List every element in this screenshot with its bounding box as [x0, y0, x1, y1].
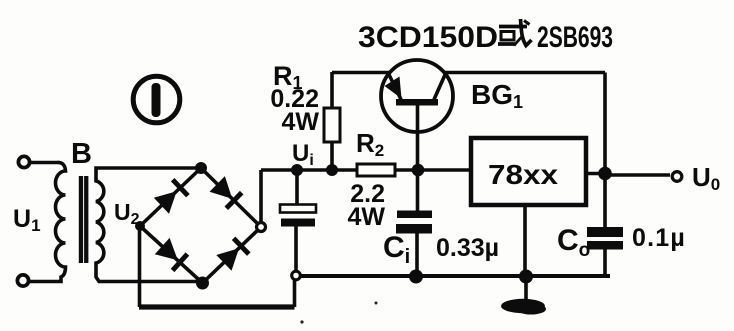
svg-text:3CD150D: 3CD150D: [358, 21, 498, 54]
node Ci bottom: [409, 270, 423, 284]
svg-text:U0: U0: [692, 162, 720, 194]
svg-text:0.1µ: 0.1µ: [632, 224, 686, 252]
top wire right of transistor: [445, 71, 605, 75]
svg-text:78xx: 78xx: [488, 159, 558, 190]
wire riser from bridge right vertex to Ui rail: [259, 170, 263, 222]
node base junction: [412, 164, 425, 177]
input terminal top: [18, 156, 29, 167]
svg-text:BG1: BG1: [471, 79, 523, 112]
diode D2 top-right: [210, 176, 242, 208]
resistor R2: [357, 164, 395, 176]
svg-text:R2: R2: [356, 128, 384, 160]
main rail Ui: [261, 168, 471, 172]
input terminal bottom: [17, 275, 28, 286]
bridge node bottom: [196, 277, 209, 290]
capacitor Co lead bottom: [603, 249, 607, 276]
svg-text:B: B: [71, 138, 92, 170]
transformer secondary winding: [96, 168, 202, 282]
diode D3 bottom-left: [155, 238, 188, 271]
wire riser lower rail to bottom rail ring: [293, 280, 297, 307]
capacitor Ci plates: [396, 211, 432, 234]
node R1 bottom: [326, 164, 338, 176]
bridge right vertex ring: [257, 223, 266, 232]
resistor R1: [324, 72, 340, 170]
junction ring: [292, 271, 301, 280]
filter capacitor plates: [280, 205, 316, 227]
diode D4 bottom-right: [216, 238, 249, 270]
bottom positive rail: [300, 274, 610, 278]
bridge node top: [195, 162, 207, 174]
capacitor Ci lead bottom: [415, 232, 419, 277]
ground stem: [524, 276, 528, 302]
figure mark (1): [133, 76, 180, 123]
wire drop from bridge left vertex to lower rail: [138, 226, 142, 307]
transistor BG1: [381, 60, 453, 211]
svg-text:Ui: Ui: [292, 140, 314, 169]
diode D1 top-left: [154, 180, 188, 214]
transformer primary winding: [29, 162, 66, 281]
svg-text:4W: 4W: [282, 108, 320, 136]
ground symbol: [501, 299, 546, 315]
svg-text:4W: 4W: [348, 203, 386, 231]
svg-text:U1: U1: [13, 205, 41, 235]
right vertical wire: [603, 73, 607, 228]
filter capacitor lead top: [295, 170, 299, 205]
bridge edge bottom-left: [140, 226, 203, 283]
output wire: [605, 173, 670, 177]
regulator ground lead: [523, 205, 527, 277]
output terminal: [672, 172, 682, 182]
lower negative rail: [139, 304, 295, 309]
bridge node left: [135, 221, 145, 231]
ground node: [519, 270, 533, 284]
top wire left of transistor: [332, 71, 389, 75]
regulator output lead: [586, 172, 605, 176]
svg-text:Co: Co: [557, 224, 590, 261]
svg-text:0.33µ: 0.33µ: [436, 234, 499, 262]
capacitor Co plates: [587, 227, 623, 250]
speck: [375, 302, 378, 305]
title CJK 或 (drawn): [498, 19, 532, 46]
bridge edge bottom-right: [203, 227, 262, 283]
speck: [300, 320, 303, 323]
svg-text:Ci: Ci: [383, 231, 410, 268]
filter capacitor lead bottom: [294, 227, 298, 272]
regulator 78xx box: [471, 138, 586, 205]
node output: [598, 167, 612, 181]
transformer core: [79, 176, 89, 263]
node Ui: [291, 164, 303, 176]
bridge edge top-left: [140, 168, 201, 226]
svg-text:2SB693: 2SB693: [537, 21, 613, 54]
bridge edge top-right: [201, 168, 261, 227]
